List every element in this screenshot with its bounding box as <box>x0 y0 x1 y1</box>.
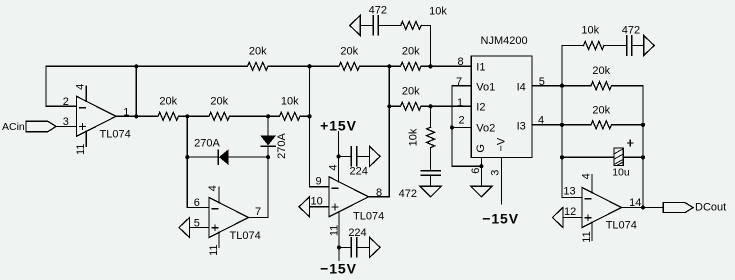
wire vertical x268 upper <box>267 116 269 136</box>
svg-text:11: 11 <box>581 231 593 242</box>
wire vertical x268 lower <box>267 146 269 217</box>
svg-text:13: 13 <box>563 186 575 198</box>
wire main mid1 <box>179 115 210 117</box>
capacitor C6 10u electrolytic <box>614 148 623 166</box>
junction top x389 <box>387 64 391 68</box>
junction G net <box>479 164 483 168</box>
wire U1D output to DCout <box>622 207 664 209</box>
wire x309 vertical to U1C pin9 <box>309 66 311 187</box>
svg-text:4: 4 <box>207 185 219 191</box>
wire feedback to pin2 <box>46 105 77 107</box>
svg-text:TL074: TL074 <box>100 128 131 140</box>
capacitor C1 224 plates <box>350 147 352 166</box>
ground symbol C5 <box>644 36 655 56</box>
svg-text:7: 7 <box>456 76 462 88</box>
svg-text:472: 472 <box>622 25 640 37</box>
svg-text:8: 8 <box>376 187 382 199</box>
wire U1A feedback vertical <box>45 66 47 106</box>
svg-text:8: 8 <box>458 56 464 68</box>
wire ACin to U1 pin3 <box>56 125 77 127</box>
wire R12 to C5 <box>604 45 627 47</box>
wire gnd to C3 <box>360 24 373 26</box>
svg-text:9: 9 <box>316 176 322 188</box>
svg-text:10u: 10u <box>612 166 630 178</box>
capacitor C1 wire right <box>357 155 370 157</box>
svg-text:12: 12 <box>564 206 576 218</box>
wire output up to top net <box>135 66 137 116</box>
svg-text:G: G <box>475 144 487 153</box>
wire pin1 line left <box>389 105 400 107</box>
wire x430 down to R9 <box>430 106 432 127</box>
resistor 20k R4 <box>158 112 178 120</box>
svg-text:20k: 20k <box>592 65 610 77</box>
junction x643 10u <box>641 155 645 159</box>
svg-text:3: 3 <box>489 170 501 176</box>
wire to U1C pin9 <box>310 186 330 188</box>
capacitor C4 472 plates <box>421 170 440 172</box>
svg-text:270A: 270A <box>194 138 220 150</box>
svg-text:20k: 20k <box>210 95 228 107</box>
wire IC pin6 G stub <box>480 158 482 187</box>
svg-text:6: 6 <box>194 197 200 209</box>
wire vertical x389 <box>388 66 390 197</box>
svg-text:20k: 20k <box>402 45 420 57</box>
svg-text:−15V: −15V <box>320 261 357 277</box>
wire top right row <box>562 45 584 47</box>
junction -15V cap <box>337 245 341 249</box>
junction output <box>134 114 138 118</box>
svg-text:DCout: DCout <box>695 202 726 214</box>
svg-text:TL074: TL074 <box>606 219 637 231</box>
svg-text:20k: 20k <box>340 45 358 57</box>
junction diode line x268 <box>266 155 270 159</box>
svg-text:ACin: ACin <box>2 121 25 133</box>
svg-text:20k: 20k <box>249 45 267 57</box>
svg-text:224: 224 <box>348 227 366 239</box>
U1A pin11 power stub <box>85 131 87 146</box>
svg-text:NJM4200: NJM4200 <box>481 35 528 47</box>
svg-text:Vo1: Vo1 <box>476 81 495 93</box>
wire gnd to pin5 <box>190 227 210 229</box>
svg-text:14: 14 <box>629 197 641 209</box>
ground symbol C4 <box>420 186 441 197</box>
svg-text:10k: 10k <box>429 5 447 17</box>
junction main x268 <box>266 114 270 118</box>
resistor 10k R6 <box>280 112 300 120</box>
capacitor C2 224 wire left <box>339 246 351 248</box>
wire main mid2 <box>230 115 280 117</box>
wire G net horizontal <box>452 165 481 167</box>
wire U1C output <box>369 196 390 198</box>
resistor 10k R9 vertical <box>427 127 435 147</box>
ground symbol U1C pin10 <box>299 197 310 217</box>
svg-text:−V: −V <box>495 137 507 151</box>
wire diode line right <box>228 156 268 158</box>
U1B pin11 stub <box>218 232 220 247</box>
junction +15V cap <box>337 154 341 158</box>
resistor 10k R8 <box>401 21 421 29</box>
svg-text:10: 10 <box>311 196 323 208</box>
ground symbol U1B pin5 <box>179 218 190 238</box>
junction output x643 <box>641 205 645 209</box>
svg-text:20k: 20k <box>402 85 420 97</box>
diode D2 270A cathode bar <box>261 145 275 147</box>
svg-text:10k: 10k <box>281 95 299 107</box>
svg-text:4: 4 <box>580 173 592 179</box>
op-amp U1A TL074 (follower) <box>77 96 117 136</box>
wire U1A output <box>116 115 158 117</box>
wire C3 to R8 <box>378 24 401 26</box>
capacitor 224 top wire left <box>339 155 351 157</box>
resistor 20k R5 <box>209 112 229 120</box>
wire 10u row right <box>623 156 643 158</box>
resistor 20k R7 <box>401 102 421 110</box>
svg-text:1: 1 <box>457 97 463 109</box>
diode D1 270A cathode bar <box>217 150 219 164</box>
svg-text:20k: 20k <box>159 95 177 107</box>
svg-text:11: 11 <box>75 144 87 155</box>
wire top net mid2 <box>360 65 401 67</box>
wire U1B output <box>249 217 269 219</box>
wire top net mid1 <box>268 65 339 67</box>
diode D1 270A body <box>219 149 228 164</box>
svg-text:7: 7 <box>255 206 261 218</box>
resistor 20k R11 <box>591 121 612 129</box>
svg-text:TL074: TL074 <box>353 211 384 223</box>
ground symbol C1 <box>370 146 381 166</box>
ground symbol IC G <box>471 186 492 197</box>
capacitor C5 472 plates <box>626 36 628 55</box>
capacitor C3 472 plates <box>372 16 374 35</box>
svg-text:I2: I2 <box>476 101 485 113</box>
junction top x309 <box>307 64 311 68</box>
junction output top <box>134 64 138 68</box>
wire top net to IC pin8 <box>421 65 471 67</box>
wire R9 to C4 <box>430 148 432 170</box>
svg-text:I4: I4 <box>517 81 526 93</box>
wire x562 to U1D pin13 <box>562 197 582 199</box>
U1D pin4 stub <box>591 175 593 193</box>
svg-text:11: 11 <box>328 225 340 236</box>
output connector DCout <box>663 203 693 213</box>
capacitor C2 224 plates <box>350 238 352 257</box>
junction top x430 <box>428 64 432 68</box>
wire top net left <box>46 65 248 67</box>
resistor 20k R10 <box>591 82 612 90</box>
wire 10u row left <box>562 156 614 158</box>
svg-text:Vo2: Vo2 <box>476 122 495 134</box>
U1C pin11 wire to -15V <box>338 212 340 261</box>
junction pin1 x430 <box>429 104 433 108</box>
svg-text:3: 3 <box>63 116 69 128</box>
resistor 20k R3 <box>401 62 421 70</box>
wire pin1 line to IC <box>421 105 471 107</box>
wire IC pin5 I4 <box>532 85 591 87</box>
capacitor C2 wire right <box>357 246 370 248</box>
wire gnd to pin10 <box>310 206 330 208</box>
wire C5 to ground <box>632 45 644 47</box>
junction diode line x187 <box>185 155 189 159</box>
wire main to x309 <box>300 115 310 117</box>
svg-text:472: 472 <box>369 4 387 16</box>
ground symbol C2 <box>370 237 381 257</box>
resistor 10k R12 <box>584 42 605 50</box>
ground symbol 472 top-left <box>350 15 361 35</box>
op-amp U1B TL074 <box>209 198 249 238</box>
U1A pin4 power stub <box>85 86 87 101</box>
svg-text:I1: I1 <box>476 61 485 73</box>
junction x389 pin1 line <box>387 104 391 108</box>
svg-text:4: 4 <box>328 164 340 170</box>
svg-text:I3: I3 <box>517 120 526 132</box>
junction main x309 <box>307 114 311 118</box>
wire branch to U1B pin6 <box>187 207 209 209</box>
resistor 20k R1 <box>248 62 268 70</box>
wire vertical x562 <box>561 46 563 198</box>
svg-text:10k: 10k <box>407 128 419 146</box>
wire R11 to x643 <box>612 124 644 126</box>
U1B pin4 stub <box>218 187 220 203</box>
svg-text:472: 472 <box>399 188 417 200</box>
svg-text:6: 6 <box>470 168 482 174</box>
junction x643 y124 <box>641 123 645 127</box>
wire R8 corner down <box>421 25 430 66</box>
wire Vo1 vertical x452 <box>451 86 453 167</box>
wire diode line left <box>187 156 218 158</box>
svg-text:2: 2 <box>459 114 465 126</box>
junction I3 x562 <box>560 123 564 127</box>
wire gnd to pin12 <box>563 217 582 219</box>
svg-text:20k: 20k <box>592 104 610 116</box>
IC U2 NJM4200 body <box>471 56 532 158</box>
svg-text:11: 11 <box>208 244 220 255</box>
svg-text:−15V: −15V <box>482 211 519 227</box>
op-amp U1C TL074 <box>329 177 369 217</box>
wire branch vertical x187 <box>186 116 188 207</box>
junction main x187 <box>185 114 189 118</box>
wire IC pin4 I3 <box>532 124 591 126</box>
resistor 20k R2 <box>339 62 359 70</box>
junction 10u left <box>560 155 564 159</box>
capacitor C6 plus sign <box>628 140 633 145</box>
svg-text:224: 224 <box>350 165 368 177</box>
svg-text:270A: 270A <box>276 132 288 158</box>
diode D2 270A body <box>260 136 275 146</box>
wire C4 to ground <box>430 175 432 186</box>
wire R10 corner down <box>612 86 644 208</box>
svg-text:4: 4 <box>538 114 544 126</box>
wire IC pin3 -V stub <box>500 158 502 204</box>
junction Vo2 <box>450 125 454 129</box>
svg-text:5: 5 <box>539 76 545 88</box>
input connector ACin <box>26 121 56 131</box>
U1D pin11 stub <box>591 222 593 240</box>
op-amp U1D TL074 <box>582 188 622 228</box>
wire +15V down to pin4 <box>338 132 340 182</box>
svg-text:4: 4 <box>74 84 86 90</box>
wire IC pin7 Vo1 <box>452 85 471 87</box>
ground symbol U1D pin12 <box>552 208 563 228</box>
svg-text:TL074: TL074 <box>230 230 261 242</box>
junction I4 x562 <box>560 84 564 88</box>
wire IC pin2 Vo2 <box>452 126 471 128</box>
svg-text:10k: 10k <box>581 25 599 37</box>
